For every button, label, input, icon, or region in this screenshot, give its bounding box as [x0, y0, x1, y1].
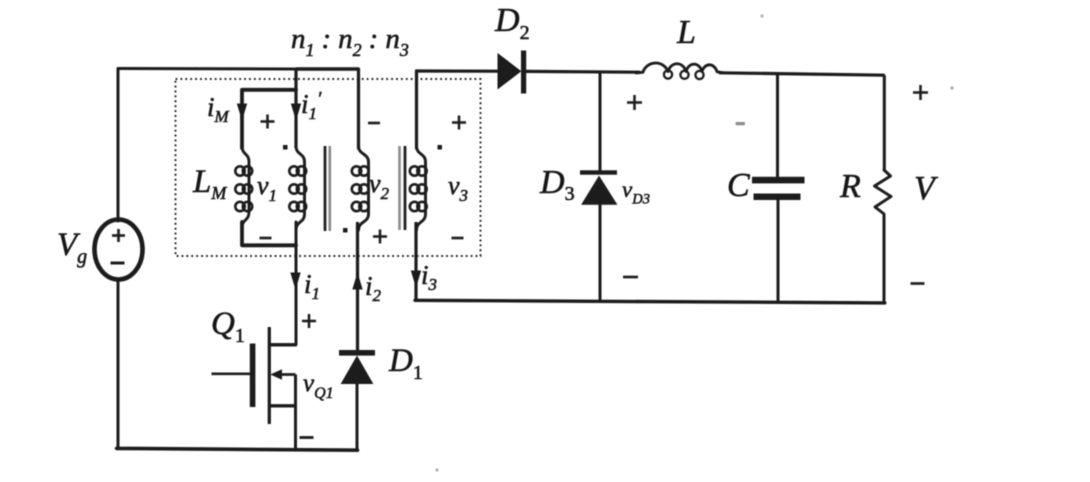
current arrow i3 — [412, 271, 421, 286]
polarity dot winding 3 — [438, 145, 443, 150]
inductor L — [636, 63, 723, 79]
wire: bottom ground rail from Vg to D1 — [117, 448, 358, 450]
scan speck — [951, 87, 954, 90]
diode D1 — [339, 350, 375, 384]
polarity minus v3 — [452, 237, 464, 240]
transformer core bars between winding 2 and 3 — [400, 146, 406, 230]
wire: R bottom lead — [883, 214, 886, 304]
wire: top rail from winding-1 top to winding-2 top — [296, 67, 359, 70]
polarity minus vD3 — [623, 276, 638, 279]
current arrow i1 — [291, 273, 300, 288]
polarity plus vQ1 — [302, 314, 316, 328]
voltage source Vg — [95, 220, 143, 280]
winding 3 coil — [410, 146, 427, 230]
wire: D2 cathode node down to D3 cathode — [599, 71, 602, 170]
wire: R top lead — [883, 75, 886, 170]
ideal transformer winding 3 wire (top) — [415, 71, 418, 148]
wire: cap C bottom lead — [777, 200, 780, 303]
wire: L to load top corner — [719, 73, 885, 75]
capacitor C — [752, 177, 805, 200]
polarity dot winding 1 — [283, 145, 288, 150]
polarity plus v2 — [373, 230, 387, 244]
svg-text:L: L — [676, 14, 696, 51]
inductor LM coil — [235, 146, 252, 228]
transistor Q1 (MOSFET) — [212, 327, 297, 450]
wire: D3 anode down to output ground rail — [599, 204, 602, 301]
scan speck — [436, 469, 439, 472]
current arrow iM — [238, 104, 247, 119]
polarity minus output — [911, 282, 925, 285]
current arrow i2 — [353, 274, 362, 289]
wire: winding 2 bottom to diode D1 — [356, 222, 359, 351]
wire: winding 3 top to diode D2 — [417, 69, 499, 72]
svg-text:R: R — [839, 168, 861, 205]
polarity plus vD3 — [627, 95, 642, 110]
transformer core bars between winding 1 and 2 — [325, 146, 330, 231]
svg-text:C: C — [727, 167, 750, 204]
polarity minus v2 — [368, 122, 380, 125]
wire: D2 cathode to inductor L — [526, 70, 640, 74]
winding 2 coil — [352, 146, 369, 230]
wire: Vg negative lead down to ground rail — [117, 279, 120, 450]
scan speck — [761, 15, 764, 18]
wire: cap C top lead — [776, 74, 779, 178]
winding 1 coil — [289, 146, 306, 230]
magnetizing inductance LM loop wires (thick) — [242, 90, 296, 246]
resistor R zigzag — [875, 170, 892, 214]
transformer model dotted box — [176, 79, 481, 256]
polarity plus v1 — [261, 115, 275, 129]
scan smudge faint minus — [736, 122, 746, 125]
wire: winding 1 bottom to Q1 drain — [270, 222, 297, 345]
polarity plus output — [913, 85, 928, 100]
ideal transformer winding 1 wire (top) — [294, 69, 297, 148]
polarity minus v1 — [260, 237, 272, 240]
wire: winding 3 bottom to output ground rail — [414, 222, 417, 300]
diode D2 — [498, 51, 526, 94]
output ground rail — [415, 300, 885, 303]
polarity minus vQ1 — [300, 436, 314, 439]
ideal transformer winding 2 wire (top corner from rail) — [357, 69, 360, 148]
polarity plus v3 — [452, 116, 466, 130]
wire: D1 anode to ground rail — [356, 383, 359, 451]
polarity dot winding 2 — [343, 228, 348, 233]
diode D3 — [580, 170, 617, 204]
current arrow i1prime — [292, 104, 301, 119]
wire: Vg positive lead up and top rail to winding-1 top — [118, 69, 296, 222]
